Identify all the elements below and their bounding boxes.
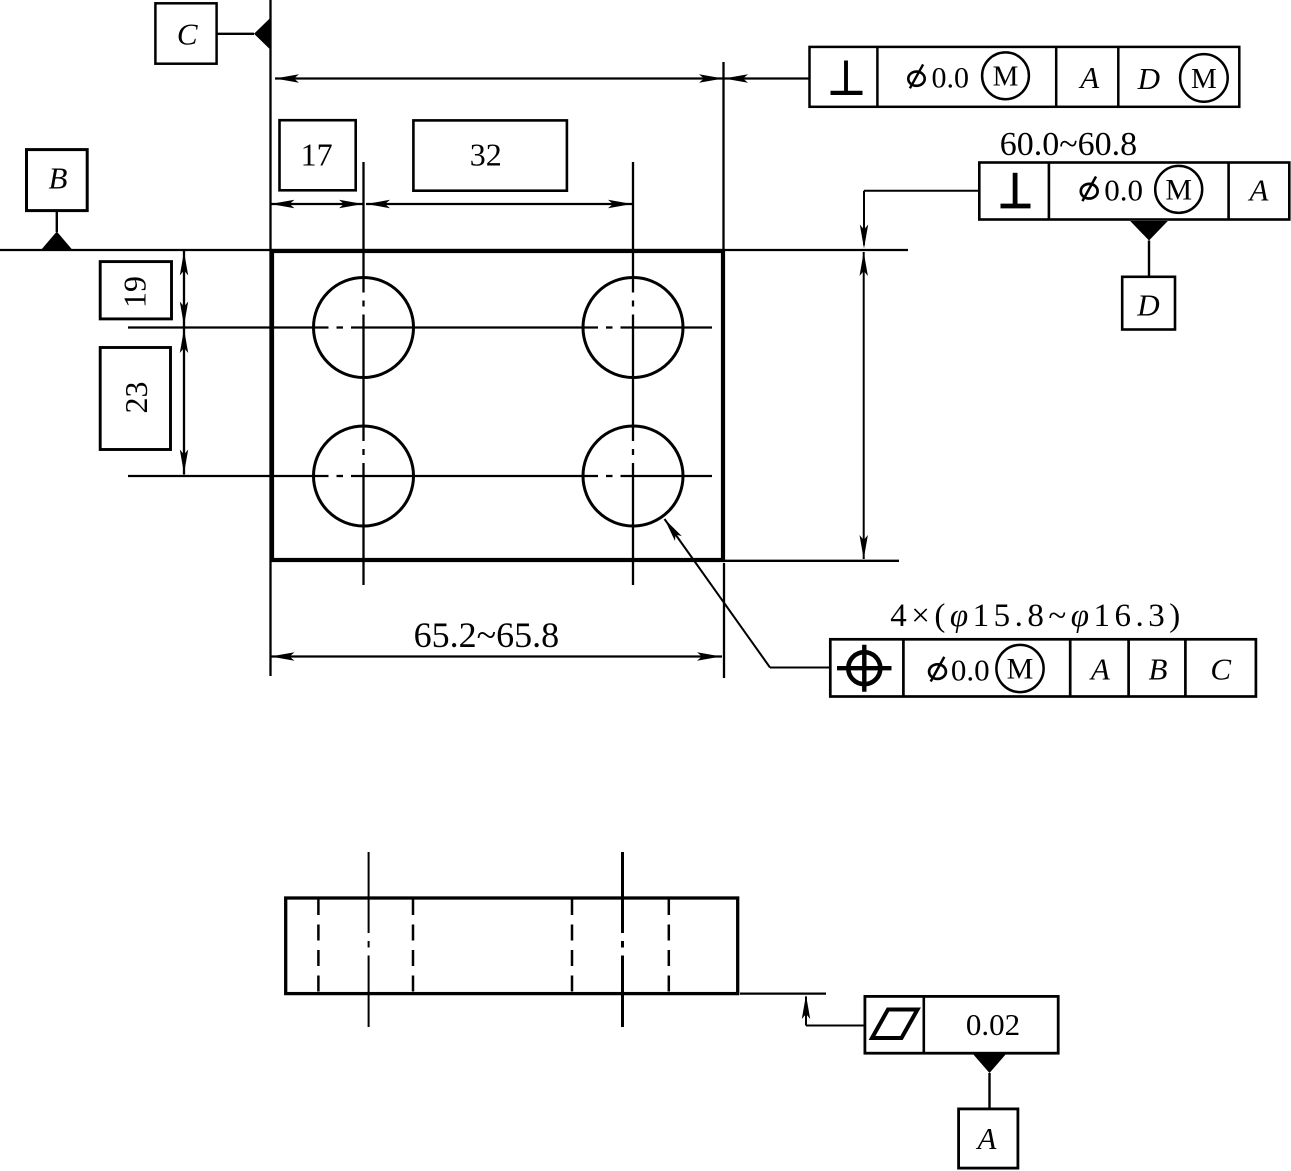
svg-text:0.0: 0.0 <box>1104 172 1143 207</box>
svg-text:C: C <box>1210 652 1231 687</box>
svg-text:19: 19 <box>116 276 152 308</box>
svg-text:23: 23 <box>118 382 154 414</box>
svg-text:0.0: 0.0 <box>932 61 970 94</box>
svg-text:M: M <box>993 61 1019 93</box>
svg-text:M: M <box>1191 63 1217 95</box>
svg-text:32: 32 <box>470 137 502 173</box>
svg-text:M: M <box>1165 174 1192 207</box>
svg-text:A: A <box>1078 60 1100 95</box>
svg-text:4×(φ15.8~φ16.3): 4×(φ15.8~φ16.3) <box>890 598 1185 634</box>
svg-text:M: M <box>1007 653 1034 686</box>
svg-text:A: A <box>1089 652 1111 687</box>
svg-text:D: D <box>1136 288 1159 323</box>
svg-text:C: C <box>177 16 198 51</box>
svg-text:B: B <box>1149 652 1168 687</box>
svg-text:A: A <box>1248 173 1270 208</box>
svg-text:65.2~65.8: 65.2~65.8 <box>414 615 559 655</box>
svg-text:0.0: 0.0 <box>951 653 990 688</box>
svg-text:0.02: 0.02 <box>966 1007 1020 1042</box>
svg-text:B: B <box>49 161 68 196</box>
svg-text:A: A <box>976 1121 998 1156</box>
svg-text:17: 17 <box>301 137 333 173</box>
svg-text:D: D <box>1137 61 1160 96</box>
svg-text:60.0~60.8: 60.0~60.8 <box>1000 126 1137 163</box>
